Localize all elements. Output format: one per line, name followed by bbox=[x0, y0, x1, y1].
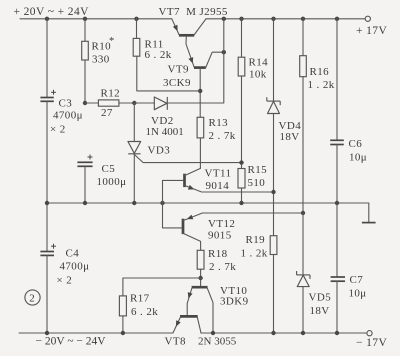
svg-text:VT8: VT8 bbox=[165, 336, 186, 348]
resistor R11 bbox=[136, 19, 138, 39]
wire: R16 bottom down to VT12 emitter line bbox=[302, 77, 304, 213]
svg-text:R19: R19 bbox=[246, 234, 266, 246]
svg-text:9014: 9014 bbox=[206, 180, 230, 192]
wire: VD3 cathode down to ground rail bbox=[133, 154, 135, 203]
node: output rail / VD2 riser bbox=[222, 17, 226, 21]
svg-text:VT11: VT11 bbox=[205, 168, 232, 180]
svg-text:1N 4001: 1N 4001 bbox=[146, 126, 184, 138]
wire: VT12 collector down to R18 bbox=[183, 233, 201, 250]
figure number (2) bbox=[25, 290, 40, 305]
wire: VT8 emitter to left rail segment bbox=[173, 318, 180, 333]
svg-text:4700μ: 4700μ bbox=[60, 261, 90, 273]
terminal: +17V output bbox=[365, 16, 370, 21]
resistor R17 bbox=[119, 296, 126, 316]
resistor R13 bbox=[197, 117, 204, 138]
wire: VT11 emitter to VD4/R19 node bbox=[185, 185, 274, 192]
zener diode VD5 bbox=[302, 213, 304, 275]
svg-text:9015: 9015 bbox=[208, 230, 232, 242]
wire: VT8 collector to right rail segment bbox=[197, 318, 201, 333]
svg-text:18V: 18V bbox=[310, 305, 330, 317]
resistor R19 bbox=[270, 236, 277, 255]
capacitor C4 bbox=[40, 251, 54, 253]
wire: R17 bottom to negative rail bbox=[122, 316, 124, 333]
wire: +20V~+24V input rail bbox=[20, 18, 172, 20]
node: negative rail / C4 bbox=[45, 331, 49, 335]
svg-text:R14: R14 bbox=[249, 57, 269, 69]
zener diode VD4 bbox=[273, 19, 275, 101]
node: negative rail / VD5 bbox=[301, 331, 305, 335]
node: VT9 collector / VD2 riser bbox=[222, 50, 226, 54]
node: negative rail / VT10 collector bbox=[211, 331, 215, 335]
resistor R12 bbox=[85, 102, 98, 104]
wire: VT12 base from ground rail bbox=[163, 203, 182, 228]
svg-text:+ 20V ~ + 24V: + 20V ~ + 24V bbox=[14, 6, 90, 18]
node: negative rail / C7 bbox=[335, 331, 339, 335]
capacitor C3 bbox=[46, 19, 48, 98]
node: ground rail / R15 bbox=[239, 201, 243, 205]
node: output rail / R16 top bbox=[301, 17, 305, 21]
wire: VT10 collector down to negative rail bbox=[207, 288, 213, 333]
svg-text:*: * bbox=[109, 36, 115, 47]
svg-text:C4: C4 bbox=[66, 248, 80, 260]
transistor Q VT7 base bar bbox=[179, 34, 194, 37]
svg-text:R13: R13 bbox=[209, 117, 229, 129]
node: R12 / VD2 anode / VD3 bbox=[132, 101, 136, 105]
node: input rail / R10 line bbox=[83, 17, 87, 21]
wire: VD2 anode lead bbox=[134, 102, 154, 104]
svg-text:3CK9: 3CK9 bbox=[163, 77, 191, 89]
node: VT9 base / R11 / R13 bbox=[198, 89, 202, 93]
svg-text:27: 27 bbox=[101, 107, 113, 119]
svg-text:510: 510 bbox=[248, 177, 266, 189]
capacitor C6 bbox=[336, 19, 338, 140]
arrow: VT9 emitter (pointing into bar) bbox=[188, 57, 195, 64]
resistor R15 bbox=[238, 169, 245, 189]
svg-text:10μ: 10μ bbox=[349, 288, 367, 300]
node: input rail / C3 line bbox=[45, 17, 49, 21]
wire: R14 bottom to R15 top bbox=[241, 76, 243, 169]
resistor R10 bbox=[84, 19, 86, 42]
svg-text:R16: R16 bbox=[310, 66, 330, 78]
wire: VT9 collector up to riser bbox=[206, 52, 224, 67]
svg-text:2: 2 bbox=[29, 293, 35, 305]
node: negative rail / R17 bbox=[121, 331, 125, 335]
wire: R15 bottom to ground rail bbox=[241, 188, 243, 203]
svg-text:330: 330 bbox=[92, 54, 110, 66]
wire: VD3 top lead bbox=[133, 103, 135, 141]
transistor Q VT9 base bar bbox=[194, 66, 206, 69]
svg-text:VD3: VD3 bbox=[148, 145, 171, 157]
wire: VT11 collector diag bbox=[185, 168, 201, 175]
transistor Q VT11 base bar bbox=[183, 174, 186, 187]
resistor R16 bbox=[302, 19, 304, 56]
svg-text:VT12: VT12 bbox=[208, 218, 235, 230]
arrow: VT7 emitter (PNP) bbox=[173, 25, 180, 33]
node: R18 / R17 / VT10 base bbox=[198, 276, 202, 280]
node: R10 / R12 / C5 junction bbox=[83, 101, 87, 105]
diode VD3 bbox=[128, 142, 141, 154]
transistor Q VT10 base bar bbox=[192, 286, 208, 289]
node: output rail / R14 top bbox=[239, 17, 243, 21]
wire: VT7 emitter from input rail bbox=[172, 19, 179, 35]
resistor R14 bbox=[241, 19, 243, 57]
wire: VD3 cathode bend to R14/R15 node bbox=[134, 155, 241, 163]
svg-text:1 . 2k: 1 . 2k bbox=[241, 248, 268, 260]
svg-text:R18: R18 bbox=[208, 248, 228, 260]
node: ground rail / VD3 bbox=[132, 201, 136, 205]
node: ground rail / C6 C7 bbox=[335, 201, 339, 205]
capacitor C5 bbox=[77, 161, 92, 163]
wire: VT7 base to VT9 emitter bbox=[186, 37, 194, 68]
svg-text:1000μ: 1000μ bbox=[97, 176, 127, 188]
wire: VT11 base from ground rail bbox=[163, 180, 184, 203]
svg-text:2 . 7k: 2 . 7k bbox=[209, 130, 236, 142]
svg-text:2N 3055: 2N 3055 bbox=[198, 336, 237, 348]
svg-text:C5: C5 bbox=[102, 163, 116, 175]
wire: negative rail left segment bbox=[19, 332, 173, 334]
node: negative rail / R19 bbox=[271, 331, 275, 335]
transistor Q VT8 base bar bbox=[180, 315, 198, 318]
wire: R11 bottom to VT9 base bbox=[137, 56, 199, 91]
svg-text:− 17V: − 17V bbox=[356, 337, 387, 349]
svg-text:4700μ: 4700μ bbox=[53, 110, 83, 122]
wire: VD5 anode to negative rail bbox=[302, 287, 304, 333]
svg-text:C7: C7 bbox=[350, 274, 364, 286]
resistor R18 bbox=[197, 250, 204, 269]
diode VD2 bbox=[154, 97, 167, 110]
capacitor C7 bbox=[336, 203, 338, 277]
wire: VT12 emitter to R16/VD5 node bbox=[183, 213, 303, 221]
node: VT12 emitter line / R16 / VD5 bbox=[301, 211, 305, 215]
svg-text:VD5: VD5 bbox=[309, 292, 332, 304]
svg-text:R12: R12 bbox=[101, 87, 121, 99]
wire: VT10 emitter down to VT8 base bbox=[187, 288, 192, 315]
svg-text:10μ: 10μ bbox=[349, 152, 367, 164]
wire: negative rail right segment bbox=[201, 332, 367, 334]
svg-text:2 . 7k: 2 . 7k bbox=[209, 261, 236, 273]
node: output rail / VD4 top bbox=[271, 17, 275, 21]
wire: R19 bottom to negative rail bbox=[273, 255, 275, 334]
svg-text:× 2: × 2 bbox=[50, 124, 66, 136]
svg-text:18V: 18V bbox=[280, 131, 300, 143]
svg-text:3DK9: 3DK9 bbox=[220, 296, 249, 308]
wire: R18 bottom to VT10 base bbox=[200, 269, 202, 287]
node: input rail / R11 top bbox=[134, 17, 138, 21]
svg-text:− 20V ~ − 24V: − 20V ~ − 24V bbox=[36, 336, 107, 348]
arrow: VT12 emitter (PNP, pointing into bar) bbox=[186, 215, 193, 222]
terminal: -17V output bbox=[367, 331, 372, 336]
node: ground rail / C5 bbox=[83, 201, 87, 205]
transistor Q VT12 base bar bbox=[182, 219, 185, 234]
svg-text:C3: C3 bbox=[59, 98, 73, 110]
wire: +17V output rail bbox=[206, 18, 365, 20]
wire: ground mid rail bbox=[47, 203, 369, 222]
svg-text:+ 17V: + 17V bbox=[356, 25, 387, 37]
wire: R13 bottom to VT11 collector bbox=[199, 138, 201, 169]
wire: VD2 cathode to output rail riser bbox=[167, 19, 224, 103]
svg-text:R17: R17 bbox=[130, 293, 150, 305]
svg-text:VT7 M J2955: VT7 M J2955 bbox=[159, 6, 228, 18]
wire: VT7 collector to output rail bbox=[194, 19, 206, 35]
wire: VD4 anode down through R19 node bbox=[273, 114, 275, 236]
svg-text:C6: C6 bbox=[349, 138, 363, 150]
wire: VT9 base down to R13 bbox=[199, 68, 201, 118]
arrow: VT11 emitter (NPN) bbox=[188, 185, 195, 192]
svg-text:VD4: VD4 bbox=[279, 120, 302, 132]
ground symbol bbox=[362, 222, 376, 224]
svg-text:6 . 2k: 6 . 2k bbox=[145, 49, 172, 61]
svg-text:1 . 2k: 1 . 2k bbox=[308, 79, 335, 91]
wire: R17 top link from VT10 base node bbox=[123, 278, 201, 296]
node: R14 / R15 / VD3 line bbox=[239, 160, 243, 164]
node: VT11 emitter line / VD4 / R19 bbox=[271, 190, 275, 194]
svg-text:R15: R15 bbox=[248, 164, 268, 176]
svg-text:VT9: VT9 bbox=[168, 64, 189, 76]
node: ground rail / C3-C4 bbox=[45, 201, 49, 205]
svg-text:× 2: × 2 bbox=[57, 275, 73, 287]
node: ground rail / VT11 VT12 bases bbox=[160, 201, 164, 205]
node: output rail / C6 top bbox=[335, 17, 339, 21]
svg-text:10k: 10k bbox=[249, 68, 267, 80]
svg-text:6 . 2k: 6 . 2k bbox=[131, 306, 158, 318]
arrow: VT8 emitter (NPN) bbox=[174, 320, 181, 328]
arrow: VT10 emitter (NPN) bbox=[186, 292, 193, 299]
